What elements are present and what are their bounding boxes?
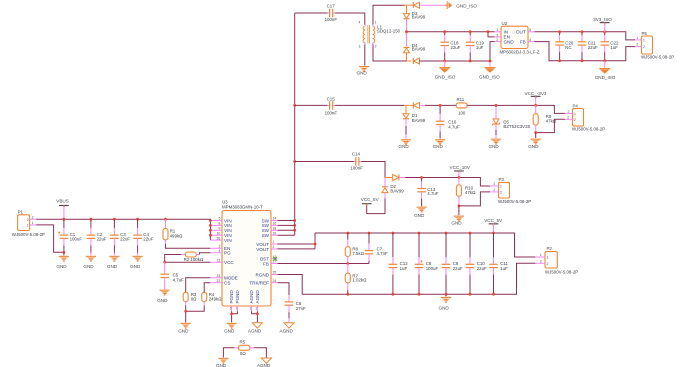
svg-text:OUT: OUT: [516, 30, 526, 35]
svg-text:GND: GND: [451, 220, 462, 225]
svg-text:RGND: RGND: [255, 272, 269, 277]
svg-text:BAV99: BAV99: [412, 47, 426, 52]
svg-text:NC: NC: [565, 45, 571, 50]
svg-text:2: 2: [574, 118, 576, 122]
ground: [157, 290, 170, 303]
svg-text:C17: C17: [327, 3, 336, 8]
capacitor C20: [555, 30, 574, 62]
node VCC_5V output: [484, 218, 503, 233]
resistor R11: [456, 97, 467, 116]
svg-text:1: 1: [540, 253, 542, 257]
svg-text:GND: GND: [216, 363, 227, 367]
wire VOUT pins to output rail: [278, 233, 316, 249]
svg-text:SW: SW: [262, 233, 270, 238]
svg-text:2: 2: [567, 115, 569, 119]
wire: [420, 4, 445, 6]
svg-text:2: 2: [643, 45, 645, 49]
node: [256, 312, 259, 315]
wire U2 OUT rail: [534, 32, 635, 40]
svg-text:WJ500V-5.08-2P: WJ500V-5.08-2P: [641, 54, 674, 59]
wire: [185, 306, 187, 323]
wire R5 right to AGND: [254, 348, 266, 358]
capacitor C2: [87, 218, 107, 256]
wire TRK/REF to C6: [278, 283, 290, 295]
wire bottom rail: [302, 263, 535, 294]
svg-text:100nF: 100nF: [350, 165, 363, 170]
svg-text:BAV99: BAV99: [412, 118, 426, 123]
svg-text:2: 2: [547, 262, 549, 266]
wire U3 bottom pin stubs: [232, 306, 258, 311]
svg-text:P2: P2: [547, 246, 553, 251]
svg-text:VCC_5V: VCC_5V: [484, 218, 503, 223]
capacitor C6: [285, 295, 306, 322]
node VCC_10V: [450, 165, 471, 179]
svg-text:2: 2: [500, 190, 502, 194]
wire R1 to EN: [166, 244, 211, 248]
svg-text:100: 100: [458, 111, 466, 116]
svg-text:FB: FB: [520, 40, 526, 45]
svg-text:GND: GND: [489, 144, 500, 149]
capacitor C17: [325, 3, 338, 22]
wire R5 left to GND: [223, 348, 234, 358]
svg-text:BAV99: BAV99: [412, 15, 426, 20]
svg-text:GND_ISO: GND_ISO: [479, 74, 500, 79]
capacitor C7: [365, 232, 388, 264]
svg-text:P1: P1: [18, 210, 24, 215]
wire: [295, 12, 328, 14]
svg-text:2: 2: [32, 215, 34, 219]
svg-text:P3: P3: [499, 177, 505, 182]
svg-text:GND: GND: [178, 328, 189, 333]
svg-text:VCC_-3V3: VCC_-3V3: [525, 91, 547, 96]
ground: [83, 256, 96, 269]
svg-text:P4: P4: [573, 103, 579, 108]
svg-text:2: 2: [375, 45, 377, 49]
capacitor C10: [466, 232, 487, 296]
svg-text:1uF: 1uF: [610, 45, 618, 50]
wire CS to R4: [204, 283, 210, 293]
svg-text:VOUT: VOUT: [256, 247, 269, 252]
svg-text:2: 2: [636, 43, 638, 47]
wire: [458, 206, 460, 215]
node VBUS: [56, 199, 69, 221]
wire: [405, 178, 490, 187]
diode D1: [403, 102, 426, 122]
node: [534, 131, 537, 134]
op-amp U2 regulator: [496, 21, 540, 54]
svg-text:1: 1: [27, 224, 29, 228]
svg-text:1: 1: [636, 36, 638, 40]
node VCC_5V: [361, 197, 380, 206]
svg-text:100nF: 100nF: [325, 17, 338, 22]
capacitor C5: [160, 262, 184, 289]
resistor R3: [183, 292, 197, 306]
ground: [414, 207, 427, 218]
svg-text:1: 1: [32, 221, 34, 225]
svg-text:22uF: 22uF: [450, 45, 460, 50]
svg-text:AGND: AGND: [280, 328, 294, 333]
wire: [399, 177, 405, 179]
wire RGND: [278, 275, 303, 295]
wire: [361, 162, 385, 178]
node VIN junction dots: [209, 219, 212, 237]
svg-text:MP6002DJ-3.3-LF-Z: MP6002DJ-3.3-LF-Z: [500, 49, 540, 54]
wire middle rail to U2: [407, 31, 495, 33]
svg-text:VCC: VCC: [224, 260, 234, 265]
ground: [399, 139, 412, 149]
svg-text:VCC_5V: VCC_5V: [361, 197, 380, 202]
svg-text:0Ω: 0Ω: [191, 297, 197, 302]
svg-text:499kΩ: 499kΩ: [170, 233, 184, 238]
capacitor C4: [133, 218, 153, 256]
node: [230, 312, 233, 315]
svg-text:GND: GND: [414, 213, 425, 218]
wire U2 GND drop: [490, 42, 495, 61]
svg-text:BAV99: BAV99: [390, 188, 404, 193]
svg-text:2: 2: [27, 218, 29, 222]
wire: [384, 193, 386, 199]
node: [163, 261, 166, 264]
capacitor C14: [350, 151, 363, 170]
wire U2 FB to GND_ISO rail: [534, 42, 635, 61]
ground output bank: [439, 294, 452, 310]
svg-text:C9: C9: [453, 261, 459, 266]
svg-text:1uF: 1uF: [400, 266, 408, 271]
wire: [406, 19, 408, 31]
ground: [528, 139, 541, 149]
svg-text:AGND: AGND: [248, 328, 262, 333]
node 3V3_ISO: [593, 17, 612, 32]
transformer L1: [359, 21, 401, 49]
svg-text:GND: GND: [399, 144, 410, 149]
wire R2 left to VCC node: [165, 255, 181, 263]
wire MODE to R3: [186, 278, 211, 293]
wire U2 pin stubs: [495, 32, 535, 42]
svg-text:GND: GND: [157, 298, 168, 303]
wire R10 bottom to P3 pin2: [459, 192, 490, 206]
diode D2: [382, 175, 404, 194]
svg-text:GND_ISO: GND_ISO: [456, 3, 477, 8]
wire VOUT top rail: [315, 233, 535, 257]
connector P4: [565, 103, 605, 131]
svg-text:GND: GND: [528, 144, 539, 149]
svg-text:249kΩ: 249kΩ: [209, 297, 223, 302]
wire: [295, 104, 328, 106]
ground AGND: [248, 323, 263, 334]
ground: [56, 256, 69, 269]
op-amp U3 MPM3683 module: [217, 200, 277, 311]
svg-text:C11: C11: [500, 261, 508, 266]
ground: [107, 256, 120, 269]
svg-text:PGND: PGND: [235, 290, 240, 304]
svg-text:TRK/REF: TRK/REF: [249, 281, 269, 286]
capacitor C9: [442, 232, 463, 296]
resistor R8: [345, 232, 364, 265]
diode D3: [404, 2, 426, 19]
capacitor C12: [389, 232, 409, 296]
wire PGND join: [232, 311, 238, 322]
ground: [451, 216, 464, 226]
svg-text:3V3_ISO: 3V3_ISO: [593, 17, 612, 22]
svg-text:22uF: 22uF: [453, 266, 463, 271]
svg-text:SDQ12-150: SDQ12-150: [377, 28, 401, 33]
svg-text:4.7nF: 4.7nF: [377, 251, 389, 256]
ground PGND: [224, 323, 237, 334]
ground: [216, 358, 229, 367]
wire P1 pin1 to GND net: [36, 225, 62, 252]
svg-text:1uF: 1uF: [500, 266, 508, 271]
svg-text:VBUS: VBUS: [56, 199, 69, 204]
wire SW pins to bus: [278, 221, 295, 236]
ground GND_ISO under U2 GND: [479, 61, 500, 79]
resistor R7: [345, 264, 367, 296]
capacitor C3: [110, 218, 130, 256]
wire: [467, 105, 565, 113]
svg-text:27nF: 27nF: [296, 306, 306, 311]
svg-text:R5: R5: [240, 340, 246, 345]
wire: [295, 161, 354, 163]
svg-text:GND: GND: [504, 40, 515, 45]
wire EN tie: [488, 32, 495, 37]
wire VCC pin: [165, 261, 211, 263]
resistor R2: [181, 252, 204, 262]
connector P5: [635, 31, 674, 60]
wire: [364, 44, 366, 65]
svg-text:1: 1: [547, 256, 549, 260]
wire: [406, 32, 408, 47]
connector P3: [490, 177, 531, 204]
svg-text:4.7uF: 4.7uF: [448, 124, 460, 129]
svg-text:C12: C12: [400, 261, 409, 266]
ground: [433, 139, 446, 149]
wire R9 bottom to P4 pin2: [536, 119, 566, 132]
svg-text:4.7uF: 4.7uF: [173, 277, 185, 282]
node SW junction dots on bus: [293, 104, 296, 232]
svg-text:GND: GND: [130, 264, 141, 269]
svg-text:22uF: 22uF: [588, 45, 598, 50]
svg-text:CS: CS: [224, 281, 230, 286]
svg-text:4: 4: [359, 21, 361, 25]
resistor R1: [163, 218, 183, 244]
node: [184, 310, 187, 313]
svg-text:WJ500V-5.08-2P: WJ500V-5.08-2P: [545, 270, 578, 275]
svg-text:C10: C10: [477, 261, 486, 266]
wire AGND join: [252, 311, 258, 322]
connector P2: [535, 246, 578, 275]
capacitor C15: [325, 97, 338, 116]
node: [487, 30, 490, 33]
svg-text:MPM3683GMN-10-T: MPM3683GMN-10-T: [222, 205, 263, 210]
diode D5 zener: [492, 104, 531, 129]
wire VCC_5V tie: [367, 199, 385, 214]
svg-text:C14: C14: [352, 151, 361, 156]
resistor R10: [456, 178, 476, 206]
wire: [420, 104, 426, 106]
ground AGND: [257, 358, 272, 367]
wire: [294, 13, 296, 235]
wire: [373, 5, 405, 24]
svg-text:1: 1: [643, 38, 645, 42]
svg-text:C8: C8: [426, 261, 432, 266]
svg-text:GND_ISO: GND_ISO: [435, 74, 456, 79]
node: [489, 60, 492, 63]
wire FB: [278, 263, 369, 265]
svg-text:1.02kΩ: 1.02kΩ: [352, 278, 367, 283]
node VCC_-3V3: [525, 91, 547, 107]
resistor R9: [533, 105, 557, 132]
wire: [335, 13, 365, 25]
diode D4: [404, 43, 426, 64]
svg-text:PG: PG: [224, 251, 231, 256]
wire: [535, 133, 537, 138]
svg-text:1: 1: [574, 112, 576, 116]
capacitor C22: [600, 30, 619, 62]
svg-text:100nF: 100nF: [325, 110, 338, 115]
wire: [425, 104, 456, 106]
svg-text:GND: GND: [433, 144, 444, 149]
ground GND_ISO under C22: [595, 61, 616, 80]
connector P1: [12, 210, 45, 238]
svg-text:1: 1: [500, 185, 502, 189]
ground: [178, 323, 191, 334]
capacitor C16: [436, 104, 460, 139]
wire U3 right pin stubs: [271, 221, 278, 283]
svg-text:2: 2: [493, 188, 495, 192]
svg-text:1: 1: [567, 110, 569, 114]
wire: [495, 124, 497, 130]
ground AGND under C6: [280, 323, 295, 334]
capacitor C19: [466, 30, 485, 62]
wire U3 left pin stubs: [210, 221, 222, 283]
capacitor C11: [489, 232, 508, 296]
svg-text:GND: GND: [107, 264, 118, 269]
svg-text:GND: GND: [357, 71, 368, 76]
ground: [357, 66, 370, 76]
wire VBUS rail: [36, 219, 210, 240]
svg-text:U2: U2: [502, 21, 508, 26]
svg-text:100uF: 100uF: [426, 266, 439, 271]
svg-text:4.7uF: 4.7uF: [427, 191, 439, 196]
node BST no-connect: [273, 257, 277, 261]
svg-text:AGND: AGND: [249, 290, 254, 304]
svg-text:47kΩ: 47kΩ: [465, 190, 476, 195]
ground: [489, 139, 502, 149]
svg-text:PGND: PGND: [229, 290, 234, 304]
svg-text:AGND: AGND: [255, 290, 260, 304]
capacitor C8: [415, 232, 439, 296]
svg-text:WJ500V-5.08-2P: WJ500V-5.08-2P: [498, 199, 531, 204]
svg-text:1uF: 1uF: [476, 45, 484, 50]
node: [405, 30, 408, 33]
svg-text:GND: GND: [56, 264, 67, 269]
svg-text:WJ500V-5.08-2P: WJ500V-5.08-2P: [572, 126, 605, 131]
svg-text:22uF: 22uF: [120, 237, 130, 242]
svg-text:C15: C15: [327, 97, 336, 102]
resistor R4: [202, 292, 223, 306]
svg-text:R11: R11: [457, 97, 465, 102]
svg-text:7.5kΩ: 7.5kΩ: [352, 251, 364, 256]
wire R2 right to PG: [200, 253, 211, 255]
svg-text:VCC_10V: VCC_10V: [450, 165, 471, 170]
svg-text:FB: FB: [263, 261, 269, 266]
svg-text:GND: GND: [224, 328, 235, 333]
node: [458, 205, 461, 208]
svg-text:22uF: 22uF: [97, 237, 107, 242]
svg-text:100uF: 100uF: [70, 237, 83, 242]
resistor R5: [234, 340, 254, 356]
svg-text:2: 2: [540, 259, 542, 263]
wire: [335, 104, 404, 106]
node: [314, 243, 317, 246]
svg-text:0Ω: 0Ω: [240, 351, 246, 356]
capacitor C21: [578, 30, 598, 62]
svg-text:R2 100kΩ: R2 100kΩ: [184, 257, 204, 262]
svg-text:GND: GND: [83, 264, 94, 269]
svg-text:P5: P5: [642, 31, 648, 36]
svg-text:22uF: 22uF: [143, 237, 153, 242]
capacitor C13: [417, 176, 439, 206]
svg-text:22uF: 22uF: [477, 266, 487, 271]
wire R4 bottom join R3: [186, 306, 205, 312]
svg-text:GND: GND: [439, 306, 450, 311]
svg-text:WJ500V-5.08-2P: WJ500V-5.08-2P: [12, 232, 45, 237]
svg-text:AGND: AGND: [257, 363, 271, 367]
ground GND_ISO flag: [444, 1, 477, 9]
svg-text:3: 3: [359, 45, 361, 49]
svg-text:GND_ISO: GND_ISO: [595, 75, 616, 80]
wire bottom rail: [373, 44, 490, 61]
wire: [384, 178, 386, 187]
capacitor C1: [58, 219, 82, 255]
svg-text:1: 1: [493, 182, 495, 186]
capacitor C18: [440, 30, 460, 62]
svg-text:VIN: VIN: [224, 238, 232, 243]
ground GND_ISO under C18: [435, 61, 456, 79]
svg-text:BZT52C3V3S: BZT52C3V3S: [503, 124, 530, 129]
ground: [130, 256, 143, 269]
wire: [405, 119, 407, 126]
